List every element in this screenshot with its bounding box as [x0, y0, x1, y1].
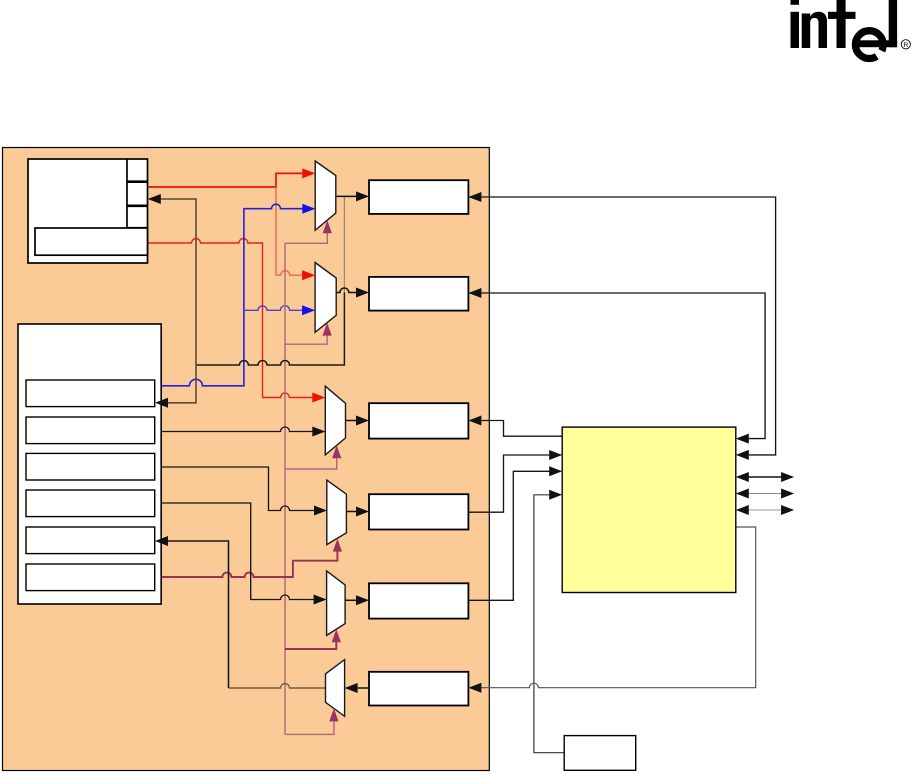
- arrow red into mux M2: [302, 270, 315, 280]
- wire: bottom box to yellow block left port: [534, 495, 564, 753]
- stack register 1: [26, 380, 155, 407]
- arrow select mux M3: [332, 445, 341, 458]
- wire: register R4 to yellow block left port: [468, 455, 549, 512]
- wire tan: mux M1 output junction down feed: [343, 196, 345, 292]
- wire red B: register-file lower port feed, down mid channel to mux M3 input: [148, 239, 313, 398]
- wire bus stub 2: [747, 493, 783, 495]
- arrow stub 1 right: [781, 472, 794, 482]
- arrow stub 2 left: [736, 489, 749, 499]
- wire: yellow block bottom out to register R6: [481, 527, 756, 688]
- arrow select mux M6: [329, 708, 338, 721]
- wire blue: stack register 1 up the channel to mux M1 and branch to mux M2: [155, 204, 303, 386]
- mux M1: [315, 161, 336, 230]
- wire: stack register 3 to mux M4 input: [155, 467, 314, 511]
- arrow red into mux M3: [312, 393, 325, 403]
- arrow into register R2: [356, 288, 369, 298]
- arrow into yellow block left port 3: [549, 490, 562, 500]
- arrow stub 3 left: [736, 505, 749, 515]
- register R1: [369, 180, 468, 214]
- wire: register R6 to mux M6 input: [357, 687, 369, 689]
- arrow select mux M4: [333, 539, 342, 552]
- register R5: [369, 583, 468, 618]
- arrow blue into mux M1: [302, 204, 315, 214]
- arrow select mux M5: [332, 629, 341, 642]
- wire maroon: stack register 6 to mux M4 select: [155, 551, 337, 577]
- arrow into register R2 right: [468, 288, 481, 298]
- arrow stub 3 right: [781, 505, 794, 515]
- mux M3: [325, 386, 345, 455]
- mux M4: [327, 480, 347, 544]
- bottom small box: [564, 736, 636, 771]
- stack register 4: [26, 490, 155, 517]
- arrow into yellow block right port 2: [736, 450, 749, 460]
- arrow select mux M2: [323, 323, 332, 336]
- arrow select mux M1: [323, 220, 332, 233]
- register R2: [369, 277, 468, 311]
- arrow red into mux M1: [302, 168, 315, 178]
- wire: stack register 4 to mux M5 input: [155, 503, 314, 600]
- arrow stub 1 left: [736, 472, 749, 482]
- arrow into stack register 1: [155, 398, 168, 408]
- yellow block: [562, 427, 736, 592]
- arrow into register R3: [356, 416, 369, 426]
- arrow into register R4: [356, 507, 369, 517]
- register R3: [369, 403, 468, 438]
- wire: mux M6 output to stack register 5: [229, 684, 326, 689]
- wire feedback: register R1 to yellow block right port: [468, 197, 775, 455]
- arrow into yellow block left port 1: [549, 450, 562, 460]
- wire select branch to mux M3: [285, 458, 337, 470]
- stack register 3: [26, 453, 155, 480]
- mux M5: [327, 571, 346, 636]
- svg-text:R: R: [903, 42, 908, 49]
- wire select branch to mux M2: [285, 335, 327, 344]
- wire red A: register-file port to mux M1 input and down to mux M2 input: [148, 173, 303, 275]
- wire: mux M4 output to register R4: [346, 511, 357, 513]
- wire: yellow block left side to register R3: [481, 421, 562, 437]
- wire: mux M1 output to register R1: [336, 195, 357, 197]
- arrow into register file write port: [148, 194, 161, 204]
- register stack outer box: [18, 324, 161, 604]
- wire select rose vertical distribution channel: [284, 243, 286, 734]
- arrow into stack register 5: [155, 536, 168, 546]
- arrow stub 2 right: [781, 489, 794, 499]
- arrow black into mux M3: [312, 427, 325, 437]
- intel logo: [791, 0, 911, 73]
- wire bus stub 1: [747, 476, 783, 478]
- arrow into yellow block left port 2: [549, 466, 562, 476]
- arrow into register R6 right: [468, 683, 481, 693]
- wire feedback: register R2 to yellow block right port: [468, 293, 765, 439]
- stack register 5: [26, 527, 155, 554]
- wire: mux M5 output to register R5: [345, 599, 357, 601]
- wire select branch to mux M6: [285, 721, 334, 735]
- register file box top-left: [28, 159, 148, 263]
- arrow into register R1: [356, 191, 369, 201]
- wire select branch to mux M1: [285, 233, 327, 244]
- arrow into mux M6: [345, 683, 358, 693]
- arrow into register R5: [356, 595, 369, 605]
- arrow black into mux M5: [314, 595, 327, 605]
- wire brown: vertical to register-file port and stack register 1: [161, 199, 197, 403]
- wire: mux M2 output to register R2: [336, 288, 357, 293]
- arrow into register R3 right: [468, 416, 481, 426]
- wire select branch to mux M5: [285, 642, 336, 650]
- stack register 2: [26, 417, 155, 444]
- wire: register R5 to yellow block left port: [468, 471, 549, 600]
- arrow into yellow block right port 1: [736, 434, 749, 444]
- arrow into register R1 right: [468, 192, 481, 202]
- wire: stack register 2 to mux M3 input: [155, 427, 313, 431]
- register R6: [369, 672, 468, 706]
- mux M6 reversed: [326, 660, 345, 717]
- arrow black into mux M4: [314, 506, 327, 516]
- wire: mux M3 output to register R3: [346, 420, 358, 422]
- wire writeback: mux M1 output down and left to register file write port: [196, 293, 344, 366]
- register R4: [369, 494, 468, 529]
- wire bus stub 3: [747, 509, 783, 511]
- mux M2: [315, 263, 336, 333]
- arrow blue into mux M2: [302, 305, 315, 315]
- stack register 6: [26, 564, 155, 591]
- orange background panel: [3, 148, 490, 771]
- instruction register wide box: [35, 228, 148, 255]
